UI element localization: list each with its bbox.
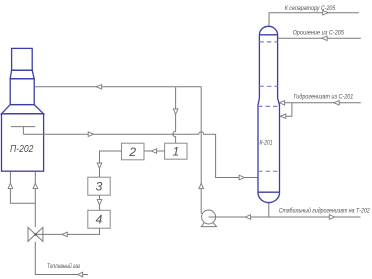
wire: reflux line into column bbox=[278, 37, 361, 39]
arrow down into box3 bbox=[97, 163, 102, 168]
instrument box 3 bbox=[88, 177, 110, 195]
arrow left on fuel gas line bbox=[77, 272, 82, 277]
wire: fuel gas line below valve bbox=[35, 242, 88, 275]
instrument box 2 bbox=[122, 143, 145, 160]
svg-text:1: 1 bbox=[172, 145, 179, 159]
furnace П-202 chimney bbox=[12, 48, 33, 70]
arrow left on bottoms to pump bbox=[245, 215, 250, 220]
furnace П-202 chimney flare bbox=[10, 70, 34, 79]
wire: furnace fuel header left drop bbox=[10, 172, 35, 204]
svg-text:К сепаратору С-205: К сепаратору С-205 bbox=[285, 5, 336, 12]
arrow right on overhead line bbox=[323, 10, 328, 15]
furnace П-202 neck bbox=[10, 79, 34, 105]
svg-text:К-201: К-201 bbox=[260, 140, 273, 147]
control valve bbox=[28, 227, 35, 241]
furnace internal coil line bbox=[11, 127, 35, 135]
wire: box2 to box3 bbox=[100, 151, 122, 177]
wire: box3 to box4 bbox=[99, 195, 101, 210]
arrow left box1 to box2 bbox=[151, 149, 156, 154]
svg-text:Топливный газ: Топливный газ bbox=[47, 262, 80, 270]
arrow right on bottoms to T-202 bbox=[329, 215, 334, 220]
wire: signal drop to box 1 (hop over transfer line) bbox=[173, 87, 176, 143]
wire: overhead line to separator bbox=[269, 13, 359, 26]
wire: feed line into column bbox=[280, 103, 361, 116]
arrow left on recycle line bbox=[96, 85, 101, 90]
column К-201 tray dashed lines bbox=[258, 42, 280, 171]
arrow right on transfer line into column bbox=[239, 175, 244, 180]
svg-text:3: 3 bbox=[96, 180, 103, 194]
wire: column bottom outlet bbox=[268, 203, 270, 217]
svg-text:4: 4 bbox=[96, 213, 103, 227]
instrument box 4 bbox=[88, 210, 110, 228]
pump bbox=[202, 210, 216, 224]
wire: bottoms line from pump to T-202 bbox=[209, 216, 361, 218]
svg-text:Стабильный гидрогенизат на Т-2: Стабильный гидрогенизат на Т-202 bbox=[279, 207, 370, 215]
furnace П-202 body bbox=[2, 114, 44, 171]
svg-text:Гидрогенизат из С-201: Гидрогенизат из С-201 bbox=[294, 92, 354, 100]
arrow up into furnace left bbox=[8, 183, 13, 188]
arrow down on signal drop bbox=[173, 109, 178, 114]
wire: box4 signal to valve bbox=[37, 228, 100, 234]
arrow up into furnace right bbox=[33, 183, 38, 188]
arrow left on reflux line bbox=[322, 36, 327, 41]
arrow left feed branch at column wall bbox=[281, 114, 286, 119]
svg-text:2: 2 bbox=[128, 145, 136, 159]
wire: transfer line furnace to column (hop over pump riser) bbox=[23, 132, 257, 178]
arrow down into box4 bbox=[97, 200, 102, 205]
arrow left mid feed line bbox=[334, 101, 339, 106]
svg-text:П-202: П-202 bbox=[10, 144, 34, 155]
arrow left feed at column wall bbox=[279, 101, 284, 106]
arrow up on pump riser bbox=[199, 183, 204, 188]
furnace П-202 shoulder bbox=[2, 105, 44, 114]
pump base bbox=[201, 223, 216, 227]
column К-201 shell bbox=[258, 26, 280, 202]
wire: box1 to box2 bbox=[144, 150, 165, 152]
arrow right on transfer line near furnace bbox=[88, 132, 93, 137]
arrow left on valve signal bbox=[62, 232, 67, 237]
instrument box 1 bbox=[165, 143, 187, 159]
svg-text:Орошение из С-205: Орошение из С-205 bbox=[293, 29, 345, 36]
wire: furnace fuel right drop to valve bbox=[34, 172, 36, 228]
wire: recycle line from pump riser to furnace bbox=[34, 87, 201, 214]
